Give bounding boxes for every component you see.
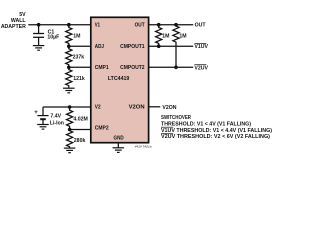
svg-text:10µF: 10µF [47,34,59,40]
battery BT 7.4V Li-Ion [42,107,44,115]
svg-text:1M: 1M [179,34,186,40]
ground at IC GND pin [113,147,125,149]
op-amp/IC U1 LTC4419 body [91,17,149,142]
wire: CMPOUT2 to V2UV label [149,66,194,68]
wire: divider to ADJ pin [69,45,91,47]
svg-text:CMP1: CMP1 [95,65,109,71]
wire: divider to CMP1 pin [69,66,91,68]
svg-text:SWITCHOVER: SWITCHOVER [161,115,191,121]
wire: V2ON pin stub [149,106,161,108]
svg-text:+: + [34,110,38,116]
svg-text:280k: 280k [74,138,86,144]
svg-text:V2: V2 [95,105,101,111]
svg-text:V1UV: V1UV [194,44,208,50]
resistor R 237k [66,46,72,67]
svg-text:4.02M: 4.02M [73,116,87,122]
resistor R 121k [66,67,72,88]
svg-text:237k: 237k [73,55,85,61]
wire: battery to V2 pin [43,106,91,108]
wire: CMPOUT1 to V1UV label [149,45,194,47]
wire: pullup2 down to CMPOUT2 row [175,44,177,68]
junction dot on CMPOUT1 row [157,44,161,48]
svg-text:CMP2: CMP2 [95,125,109,131]
svg-text:CMPOUT1: CMPOUT1 [120,44,145,50]
junction dot OUT/R pullup1 [157,23,161,27]
svg-text:ADJ: ADJ [95,44,104,50]
junction dot V2 node [68,105,72,109]
svg-text:V2UV THRESHOLD: V2 < 6V (V2 FA: V2UV THRESHOLD: V2 < 6V (V2 FALLING) [161,134,270,140]
ground under battery [37,124,49,126]
svg-text:V2UV: V2UV [194,65,208,71]
svg-text:GND: GND [114,135,124,141]
junction dot at 1M divider top [67,23,71,27]
wire: GND pin stub [117,143,119,148]
svg-text:121k: 121k [73,76,85,82]
svg-text:ADAPTER: ADAPTER [1,24,26,30]
junction dot CMP1 node [67,66,71,70]
resistor R 280k [67,130,73,148]
ground under 121k [63,87,75,89]
svg-text:LTC4419: LTC4419 [108,76,130,82]
svg-text:THRESHOLD: V1 < 4V (V1 FALLING: THRESHOLD: V1 < 4V (V1 FALLING) [161,122,251,128]
junction dot OUT/R pullup2 [174,23,178,27]
capacitor C1 10uF [38,25,40,33]
junction dot CMP2 node [68,128,72,132]
svg-text:7.4V: 7.4V [50,113,61,119]
svg-text:OUT: OUT [135,22,145,28]
svg-text:V1: V1 [95,22,100,28]
junction dot at C1 [37,23,41,27]
svg-text:CMPOUT2: CMPOUT2 [120,65,145,71]
wire: OUT net [149,24,194,26]
resistor R 4.02M [67,107,73,130]
svg-text:OUT: OUT [195,23,207,29]
svg-text:4419 TA01a: 4419 TA01a [135,145,152,149]
svg-text:1M: 1M [162,34,169,40]
svg-text:Li-Ion: Li-Ion [50,120,64,126]
resistor R 1M (V1 divider top) [66,25,72,47]
svg-text:1M: 1M [73,34,80,40]
svg-text:V1UV THRESHOLD: V1 < 4.4V (V1: V1UV THRESHOLD: V1 < 4.4V (V1 FALLING) [161,128,272,134]
ground under 280k [64,147,76,149]
svg-text:V2ON: V2ON [129,105,145,111]
resistor R 1M pullup (CMPOUT2) [173,25,179,44]
svg-text:V2ON: V2ON [162,105,176,111]
junction dot on CMPOUT2 row [174,66,178,70]
wire: 5V adapter to V1 pin [28,24,91,26]
junction dot ADJ node [67,44,71,48]
ground under C1 [33,45,45,47]
resistor R 1M pullup (CMPOUT1) [156,25,162,47]
wire: divider to CMP2 pin [70,129,91,131]
